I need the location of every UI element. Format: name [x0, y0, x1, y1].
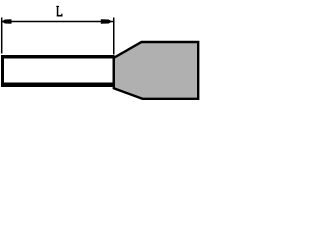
- extension line left: [1, 18, 3, 54]
- extension line right: [113, 18, 115, 55]
- arrowhead left: [2, 19, 12, 23]
- ferrule technical drawing: [0, 0, 201, 102]
- arrowhead right: [101, 19, 112, 23]
- plastic collar funnel (gray): [114, 42, 198, 99]
- metal tube bore (white): [4, 59, 113, 83]
- dimension line: [2, 21, 114, 23]
- metal tube outline: [1, 55, 115, 87]
- dimension label L: [56, 6, 62, 17]
